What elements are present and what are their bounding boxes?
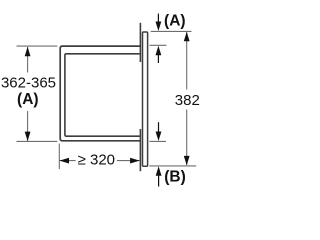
extension line top of niche (left) [17, 45, 58, 47]
svg-text:362-365: 362-365 [1, 75, 56, 92]
arrow up to niche top [157, 54, 159, 63]
arrowhead down 382 [184, 156, 190, 166]
appliance front panel [143, 32, 148, 166]
cabinet front edge lower segment [139, 129, 141, 171]
extension line panel top (right) [151, 30, 192, 32]
extension line panel bottom (right) [149, 165, 196, 167]
arrow down to niche bottom (B) [158, 122, 160, 132]
svg-text:≥ 320: ≥ 320 [78, 152, 115, 169]
dimension line 382 lower segment [186, 110, 188, 166]
dimension line 362-365 upper segment [27, 47, 29, 73]
svg-text:(B): (B) [164, 169, 186, 186]
cabinet niche outer wall [60, 46, 140, 141]
svg-text:(A): (A) [17, 91, 39, 108]
arrowhead down 362-365 [25, 132, 31, 142]
cabinet front edge upper segment [139, 23, 141, 62]
dimension line >=320 [59, 160, 139, 162]
dimension line 362-365 lower segment [27, 111, 29, 141]
extension line niche front bottom (vertical) [58, 144, 60, 169]
extension line niche top (right) [150, 44, 167, 46]
svg-text:382: 382 [175, 92, 200, 109]
arrowhead right >=320 [130, 158, 140, 164]
svg-text:(A): (A) [164, 13, 186, 30]
cabinet niche inner wall [65, 54, 140, 136]
extension line niche bottom (right) [150, 140, 167, 142]
arrowhead up 382 [184, 32, 190, 42]
arrowhead up 362-365 [25, 47, 31, 57]
extension line bottom of niche (left) [17, 140, 58, 142]
arrow down to panel top [157, 14, 159, 23]
dimension line 382 upper segment [186, 32, 188, 89]
arrowhead left >=320 [60, 158, 70, 164]
arrow up to panel bottom (B) [158, 175, 160, 187]
